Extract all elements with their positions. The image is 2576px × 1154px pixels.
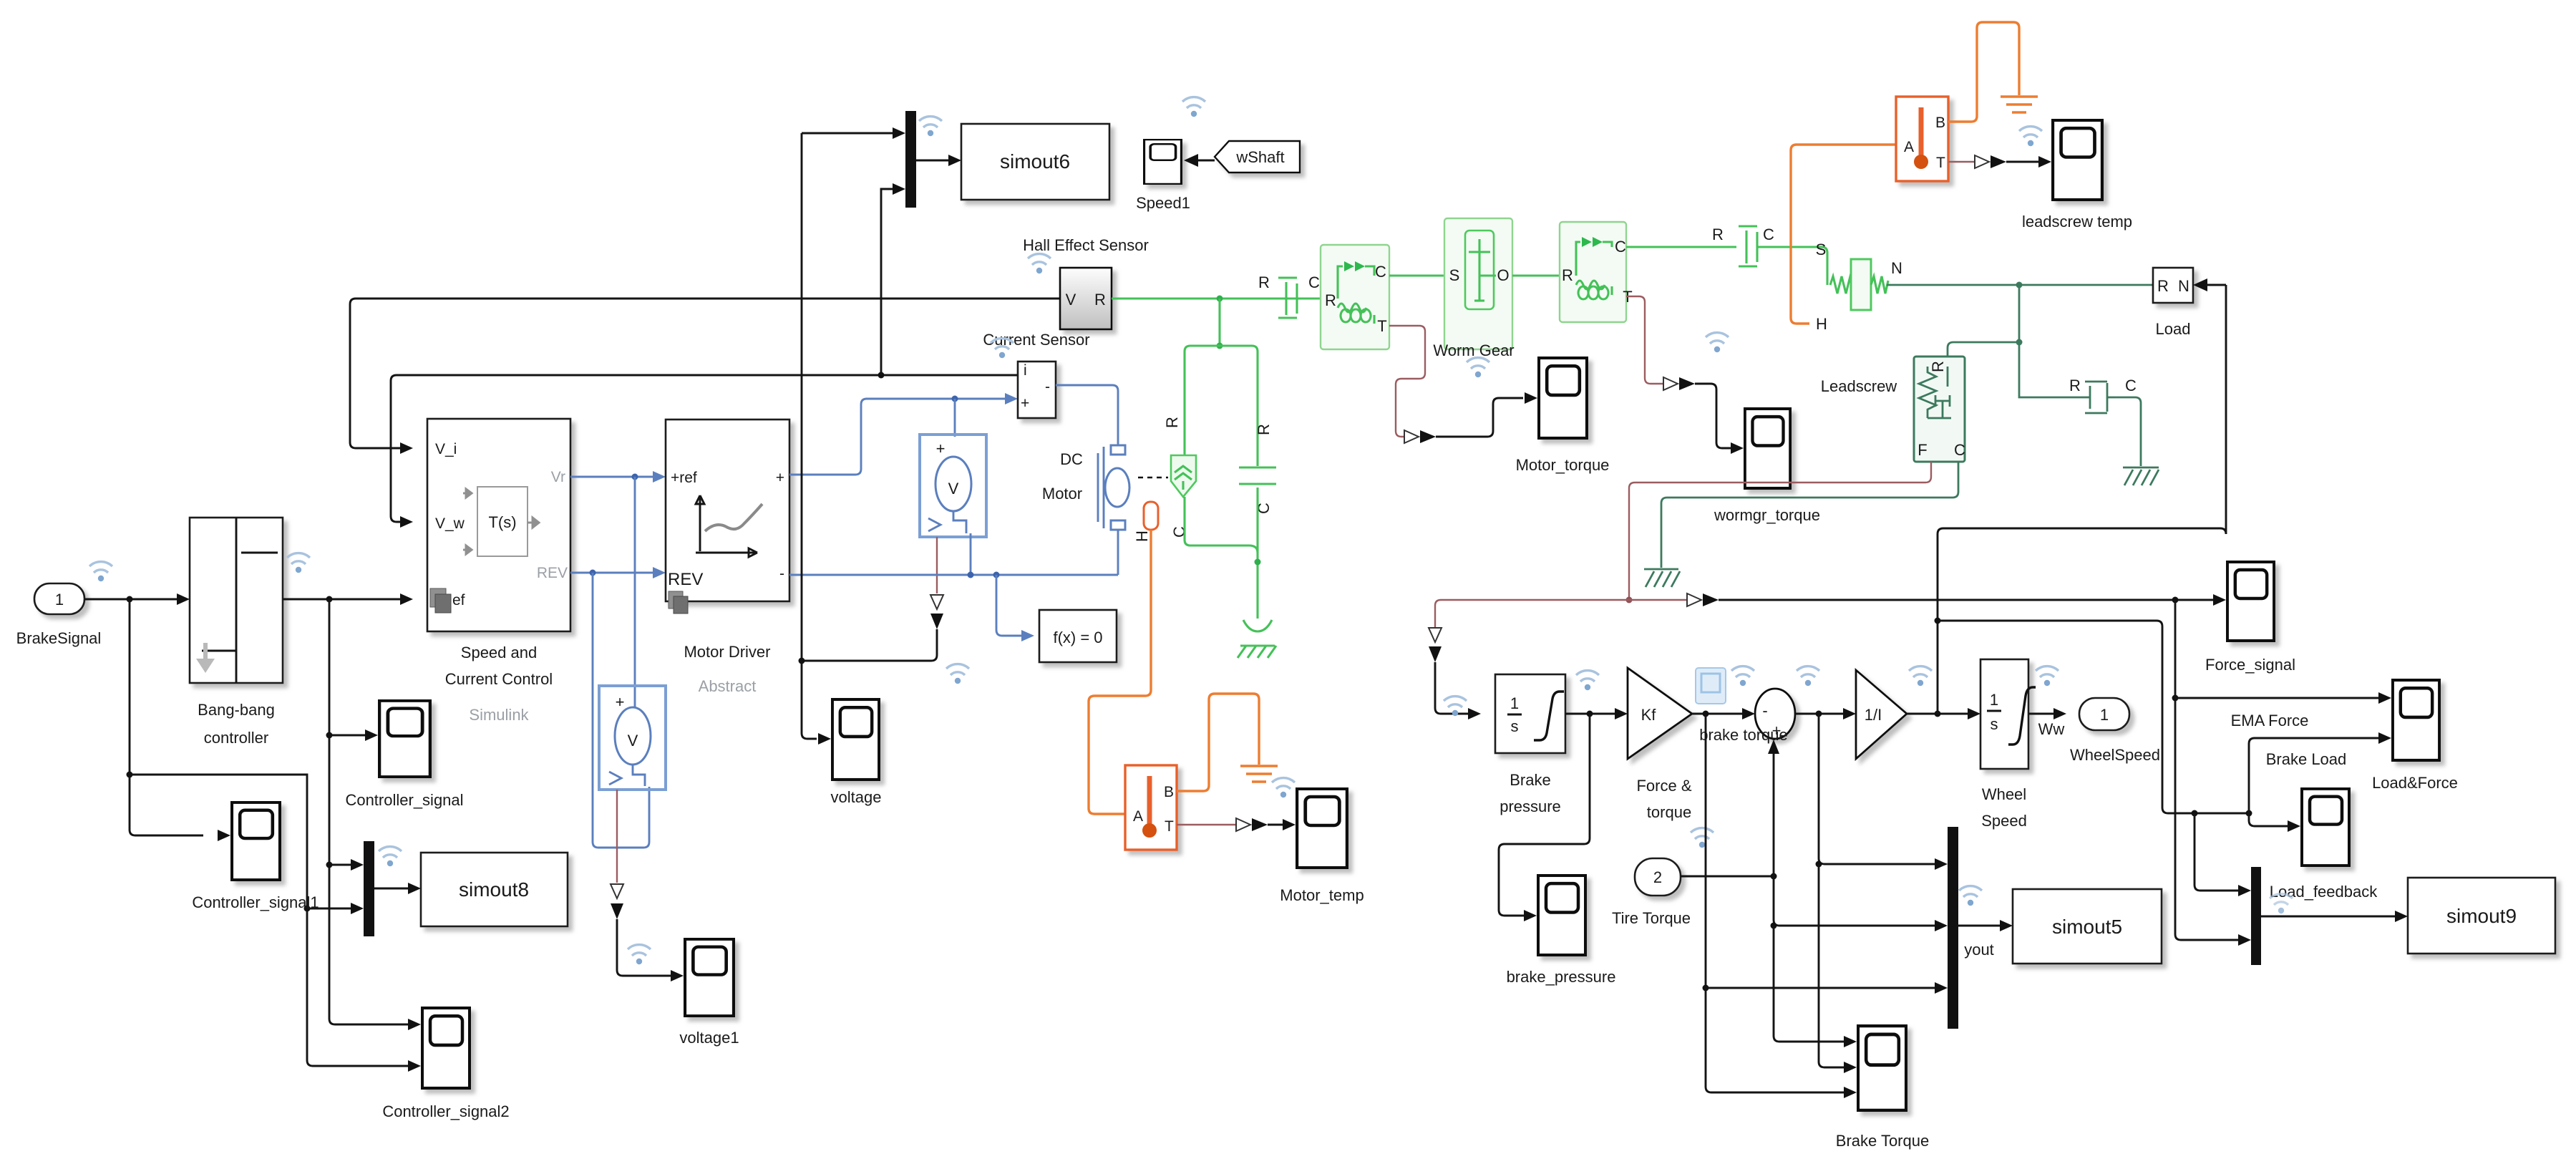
wire junction down to brake_pressure scope — [1499, 714, 1590, 921]
svg-text:voltage: voltage — [831, 788, 882, 806]
simout8 block — [421, 853, 568, 926]
wireless icon near voltage1 wire — [628, 945, 651, 965]
svg-text:Brake Torque: Brake Torque — [1836, 1132, 1929, 1150]
wire damper C to ground — [2115, 397, 2141, 466]
Brake Load wire up to Load&Force — [2249, 732, 2391, 813]
wire B wheel speed to load feedback row — [1938, 621, 2252, 817]
svg-text:i: i — [1024, 362, 1027, 379]
wireless icon near voltage wire — [946, 664, 969, 684]
svg-text:2: 2 — [1653, 868, 1662, 886]
wireless icon near wormgr wire — [1706, 333, 1729, 353]
wireless icon near Tire Torque — [1691, 828, 1714, 848]
svg-text:simout8: simout8 — [459, 878, 529, 901]
wire BrakeSignal to Bang-bang — [84, 593, 190, 605]
svg-text:s: s — [1991, 715, 1998, 733]
scope Motor_torque — [1516, 358, 1610, 474]
wire 1/I to Wheel Speed — [1907, 708, 1980, 719]
wireless icon near Motor_temp — [1272, 778, 1295, 798]
scope Load&Force — [2372, 680, 2458, 792]
svg-text:A: A — [1904, 139, 1914, 155]
temperature sensor (leadscrew) — [1896, 97, 1948, 181]
wireless icon after Brake pressure — [1576, 671, 1599, 691]
wire Vr junction down to voltage sensor2 + — [634, 477, 636, 709]
svg-text:B: B — [1935, 115, 1945, 131]
svg-text:+: + — [1021, 395, 1029, 412]
svg-text:Controller_signal: Controller_signal — [345, 791, 463, 809]
svg-text:1/I: 1/I — [1865, 706, 1882, 724]
scope Load_feedback — [2270, 789, 2378, 901]
svg-text:leadscrew temp: leadscrew temp — [2022, 213, 2132, 231]
svg-text:A: A — [1133, 808, 1143, 825]
svg-text:Motor: Motor — [1042, 485, 1082, 503]
Current Sensor block — [983, 331, 1089, 418]
svg-text:R: R — [1163, 417, 1181, 428]
translational spring-damper block (leadscrew compliance) — [1914, 357, 1965, 462]
wire block1 C to Worm Gear S — [1389, 274, 1444, 276]
svg-text:REV: REV — [668, 570, 703, 589]
Brake pressure integrator block — [1495, 674, 1565, 815]
svg-text:DC: DC — [1060, 450, 1083, 468]
svg-text:Abstract: Abstract — [699, 677, 757, 695]
svg-text:REV: REV — [537, 565, 568, 581]
temp sensor T output to Motor_temp scope — [1177, 818, 1296, 831]
DC Motor — [1042, 445, 1168, 530]
simout5 block — [2013, 889, 2162, 964]
svg-text:Wheel: Wheel — [1982, 785, 2026, 803]
mux for simout9 — [2251, 867, 2408, 965]
svg-text:R: R — [1255, 424, 1273, 435]
wire Vr to Motor Driver +ref (blue) — [570, 471, 666, 483]
svg-text:1: 1 — [1510, 694, 1519, 712]
Tire Torque input port 2 — [1612, 858, 1691, 927]
wire leadscrew N to Load (dark green) — [1887, 282, 2153, 288]
wire sum output junction down to mux in1 and Brake Torque in2 — [1816, 714, 1948, 1073]
svg-text:T(s): T(s) — [488, 513, 516, 531]
svg-text:N: N — [2178, 277, 2189, 295]
svg-text:B: B — [1164, 784, 1174, 800]
Motor Driver block — [666, 420, 789, 695]
wire block2 C to leadscrew S (green) — [1626, 247, 1827, 285]
svg-text:EMA Force: EMA Force — [2231, 712, 2309, 729]
From tag wShaft — [1184, 141, 1300, 173]
svg-text:R: R — [1562, 266, 1573, 284]
svg-text:R: R — [1712, 226, 1724, 243]
wire sum to 1/I — [1795, 708, 1856, 719]
orange wire leadscrew H to temp sensor A — [1791, 145, 1896, 324]
svg-text:R: R — [1094, 291, 1106, 309]
svg-text:N: N — [1891, 259, 1902, 277]
svg-text:R: R — [1258, 273, 1270, 291]
wire Kf output junction down to mux in3 and Brake Torque in3 — [1703, 714, 1948, 1098]
svg-text:T: T — [1377, 317, 1386, 335]
svg-text:torque: torque — [1647, 803, 1691, 821]
wire Worm Gear O to shaft block 2 — [1512, 274, 1560, 276]
svg-text:+ref: +ref — [671, 470, 697, 486]
wormgear torque tap (block2 T to wormgr_torque) — [1626, 296, 1744, 454]
svg-text:C: C — [2125, 377, 2137, 394]
svg-text:Controller_signal1: Controller_signal1 — [192, 893, 319, 911]
orange motor heat port sensor — [1133, 502, 1158, 542]
f(x)=0 block — [1039, 610, 1117, 662]
svg-text:R: R — [1929, 361, 1947, 372]
svg-text:pressure: pressure — [1500, 797, 1561, 815]
svg-text:-: - — [1762, 702, 1767, 719]
mux for simout8 — [364, 841, 421, 936]
svg-text:Tire Torque: Tire Torque — [1612, 909, 1691, 927]
svg-text:Leadscrew: Leadscrew — [1821, 377, 1897, 395]
orange wire temp sensor B to thermal reference — [1177, 694, 1259, 791]
wireless icon near Current Sensor — [991, 339, 1014, 359]
motor torque tap (block1 T to Motor_torque) — [1389, 326, 1537, 443]
voltage sensor2 — [599, 686, 666, 790]
wire Motor Driver - output (blue bus) — [789, 530, 1118, 641]
EMA Force vertical from Force_signal junction — [2172, 600, 2392, 946]
svg-text:yout: yout — [1964, 941, 1994, 959]
wire feedback y417 (hall voltage) to V_i — [350, 299, 1060, 454]
scope Controller_signal2 — [382, 1008, 509, 1120]
svg-text:Worm Gear: Worm Gear — [1433, 341, 1514, 359]
svg-text:C: C — [1615, 238, 1626, 256]
wire Tire Torque to sum (up) and mux/brake torque (down) — [1681, 740, 1948, 1047]
svg-text:Simulink: Simulink — [469, 706, 529, 724]
viewer badge on brake torque wire — [1696, 668, 1726, 704]
Speed and Current Control block — [427, 419, 570, 724]
svg-text:R: R — [2157, 277, 2169, 295]
translational damper R-C (load) — [2069, 377, 2137, 413]
svg-text:S: S — [1816, 241, 1827, 258]
svg-text:Force &: Force & — [1636, 777, 1691, 795]
scope wormgr_torque — [1714, 409, 1820, 524]
wireless icon near yout mux — [1959, 886, 1982, 906]
thermal reference (leadscrew) — [2001, 97, 2038, 112]
svg-text:simout6: simout6 — [1000, 150, 1070, 173]
svg-text:C: C — [1375, 263, 1386, 281]
Bang-bang controller — [190, 518, 283, 747]
temp sensor T to leadscrew temp scope — [1948, 155, 2051, 168]
svg-text:V_i: V_i — [435, 441, 457, 457]
wire REV to Motor Driver REV (blue) — [570, 567, 666, 578]
simout9 block — [2408, 878, 2555, 954]
Load block R N — [2153, 268, 2226, 338]
svg-text:1: 1 — [55, 591, 64, 608]
force signal long wire to Force_signal scope — [1719, 594, 2226, 606]
wireless icon near Load_feedback — [2270, 894, 2293, 914]
svg-text:wormgr_torque: wormgr_torque — [1714, 506, 1820, 524]
svg-text:ef: ef — [452, 592, 465, 608]
PS-Simulink converter below sensor1 — [799, 537, 944, 664]
svg-text:T: T — [1165, 818, 1174, 835]
svg-text:1: 1 — [2100, 706, 2109, 724]
Hall Effect Sensor block — [1023, 236, 1149, 329]
scope Controller_signal1 — [192, 803, 319, 911]
svg-text:Current Control: Current Control — [445, 670, 553, 688]
svg-text:H: H — [1133, 530, 1151, 542]
svg-text:+: + — [616, 693, 625, 711]
wireless icon near simout8 mux — [379, 847, 402, 867]
input port 1 BrakeSignal — [16, 583, 102, 647]
wireless icon near Motor_torque wire — [1467, 358, 1489, 378]
svg-text:V: V — [1066, 291, 1076, 309]
temperature sensor (motor) — [1125, 765, 1177, 850]
shaft block 2 (gear inertia/friction) — [1560, 222, 1633, 322]
sum block (brake torque) — [1699, 689, 1795, 744]
wire spring block C to ground (dark green) — [1644, 462, 1958, 587]
svg-text:Motor_temp: Motor_temp — [1280, 886, 1364, 904]
force signal wire to PS converter (dark red, right) — [1629, 593, 1719, 606]
svg-text:Bang-bang: Bang-bang — [198, 701, 275, 719]
svg-text:Motor_torque: Motor_torque — [1516, 456, 1610, 474]
svg-text:Brake Load: Brake Load — [2266, 750, 2347, 768]
scope Controller_signal — [345, 701, 463, 809]
wire Kf to sum — [1692, 708, 1755, 719]
wireless icon near Speed1 — [1182, 97, 1205, 117]
svg-text:1: 1 — [1990, 691, 1998, 709]
rotational spring-damper cap (green) — [1239, 424, 1276, 514]
dark green node branch down — [1948, 285, 2081, 397]
svg-text:simout9: simout9 — [2446, 905, 2517, 927]
svg-text:Kf: Kf — [1641, 706, 1657, 724]
svg-text:O: O — [1497, 266, 1509, 284]
scope Speed1 — [1136, 140, 1190, 212]
orange wire temp sensor B to thermal reference (top) — [1948, 22, 2019, 122]
svg-text:R: R — [1325, 291, 1336, 309]
svg-text:V_w: V_w — [435, 515, 465, 532]
svg-text:brake_pressure: brake_pressure — [1507, 968, 1616, 986]
svg-text:BrakeSignal: BrakeSignal — [16, 629, 102, 647]
rotational damper 2 R-C — [1712, 226, 1774, 266]
gain Kf (Force & torque) — [1628, 668, 1692, 821]
wire 460 vertical chain — [326, 599, 422, 1030]
mux yout — [1948, 827, 2013, 1029]
Worm Gear block — [1433, 218, 1514, 359]
wireless icon after 1/I — [1909, 666, 1932, 687]
rotational motion sensor (green pentagon) — [1163, 417, 1196, 538]
wire REV junction loop to sensor2 bottom terminal — [593, 573, 649, 848]
wire feedback y524 (current) to V_w — [391, 372, 1018, 528]
svg-text:Controller_signal2: Controller_signal2 — [382, 1102, 509, 1120]
svg-text:Hall Effect Sensor: Hall Effect Sensor — [1023, 236, 1149, 254]
Leadscrew block — [1816, 241, 1902, 395]
svg-text:Ww: Ww — [2038, 720, 2065, 738]
svg-text:Force_signal: Force_signal — [2205, 656, 2295, 674]
wireless icon near Bang-bang output — [287, 553, 310, 573]
scope voltage — [831, 699, 882, 806]
wheel speed feedback vertical to Load — [1935, 285, 2227, 714]
svg-text:V: V — [948, 480, 959, 498]
wire sensor C to node — [1185, 497, 1258, 553]
wire brake pressure to Kf — [1565, 708, 1628, 719]
wire Wheel Speed to WheelSpeed port — [2028, 708, 2066, 738]
wire into Load_feedback scope — [2249, 813, 2300, 832]
wire Current Sensor to DC Motor + — [1056, 385, 1118, 445]
force signal wire to brake pressure (dark red, left) — [1429, 600, 1629, 719]
vertical wire voltage signal x1120 — [802, 133, 831, 745]
svg-text:R: R — [2069, 377, 2081, 394]
wireless icon near leadscrew temp — [2019, 127, 2042, 147]
wire Load feedback to mux input 1 — [2195, 813, 2251, 896]
PS-Simulink converter below sensor2 — [611, 790, 684, 981]
svg-text:f(x) = 0: f(x) = 0 — [1053, 629, 1102, 646]
wire spring block F to force signal (dark red) — [1626, 462, 1932, 603]
scope Force_signal — [2205, 562, 2295, 674]
svg-text:C: C — [1954, 441, 1965, 459]
wireless icon near brake pressure input — [1444, 697, 1467, 717]
svg-text:H: H — [1816, 315, 1827, 333]
svg-text:Speed: Speed — [1981, 812, 2027, 830]
scope leadscrew temp — [2022, 120, 2132, 231]
svg-text:C: C — [1308, 273, 1320, 291]
thermal reference (motor) — [1240, 766, 1278, 782]
svg-text:wShaft: wShaft — [1235, 148, 1284, 166]
svg-text:S: S — [1449, 266, 1460, 284]
green node to rotational reference — [1238, 488, 1276, 658]
svg-text:Load&Force: Load&Force — [2372, 774, 2458, 792]
svg-text:+: + — [936, 440, 946, 457]
svg-text:F: F — [1918, 441, 1927, 459]
svg-text:-: - — [779, 566, 784, 582]
wire Bang-bang to ref — [283, 593, 413, 605]
svg-text:brake torque: brake torque — [1699, 726, 1788, 744]
shaft block 1 (motor inertia/friction) — [1321, 245, 1389, 349]
gain 1/I — [1856, 670, 1907, 759]
svg-text:T: T — [1936, 155, 1945, 171]
svg-text:simout5: simout5 — [2052, 916, 2122, 938]
scope Brake Torque — [1836, 1026, 1929, 1150]
rotational damper R-C on shaft — [1258, 273, 1320, 318]
svg-text:Load: Load — [2156, 320, 2191, 338]
voltage sensor1 — [920, 435, 986, 575]
wireless icon after Wheel Speed — [2036, 666, 2059, 687]
output port 1 WheelSpeed — [2070, 698, 2160, 764]
orange wire motor H to temp sensor A — [1089, 530, 1151, 814]
svg-text:-: - — [1045, 379, 1050, 395]
svg-text:controller: controller — [204, 729, 268, 747]
wireless icon near Hall sensor — [1028, 254, 1051, 274]
svg-text:Vr: Vr — [551, 469, 565, 485]
wireless icon near BrakeSignal — [89, 562, 112, 582]
svg-text:Speed and: Speed and — [461, 644, 537, 661]
svg-text:Load_feedback: Load_feedback — [2270, 883, 2378, 901]
svg-text:WheelSpeed: WheelSpeed — [2070, 746, 2160, 764]
wire node 181 down branches — [127, 599, 231, 841]
translational ground (load) — [2123, 467, 2159, 485]
scope voltage1 — [679, 939, 739, 1047]
svg-text:Speed1: Speed1 — [1136, 194, 1190, 212]
wire 181 to 429 vertical chain — [130, 775, 421, 1072]
svg-text:C: C — [1763, 226, 1774, 243]
simout6 block — [961, 124, 1109, 200]
scope brake_pressure — [1507, 876, 1616, 986]
svg-text:Motor Driver: Motor Driver — [684, 643, 770, 661]
wire hall R output (green shaft) — [1112, 296, 1321, 302]
wireless icons near sum — [1731, 666, 1754, 687]
svg-text:Brake: Brake — [1510, 771, 1550, 789]
svg-text:+: + — [776, 470, 784, 486]
svg-text:voltage1: voltage1 — [679, 1029, 739, 1047]
Wheel Speed integrator block — [1980, 659, 2036, 830]
wire Motor Driver + output to Current Sensor — [789, 393, 1018, 475]
green node branch down — [1185, 299, 1258, 466]
mux for simout6 — [802, 111, 961, 375]
scope Motor_temp — [1280, 789, 1364, 904]
wireless icon near simout6 mux — [919, 117, 942, 137]
svg-text:s: s — [1511, 717, 1519, 735]
svg-text:V: V — [628, 732, 638, 750]
